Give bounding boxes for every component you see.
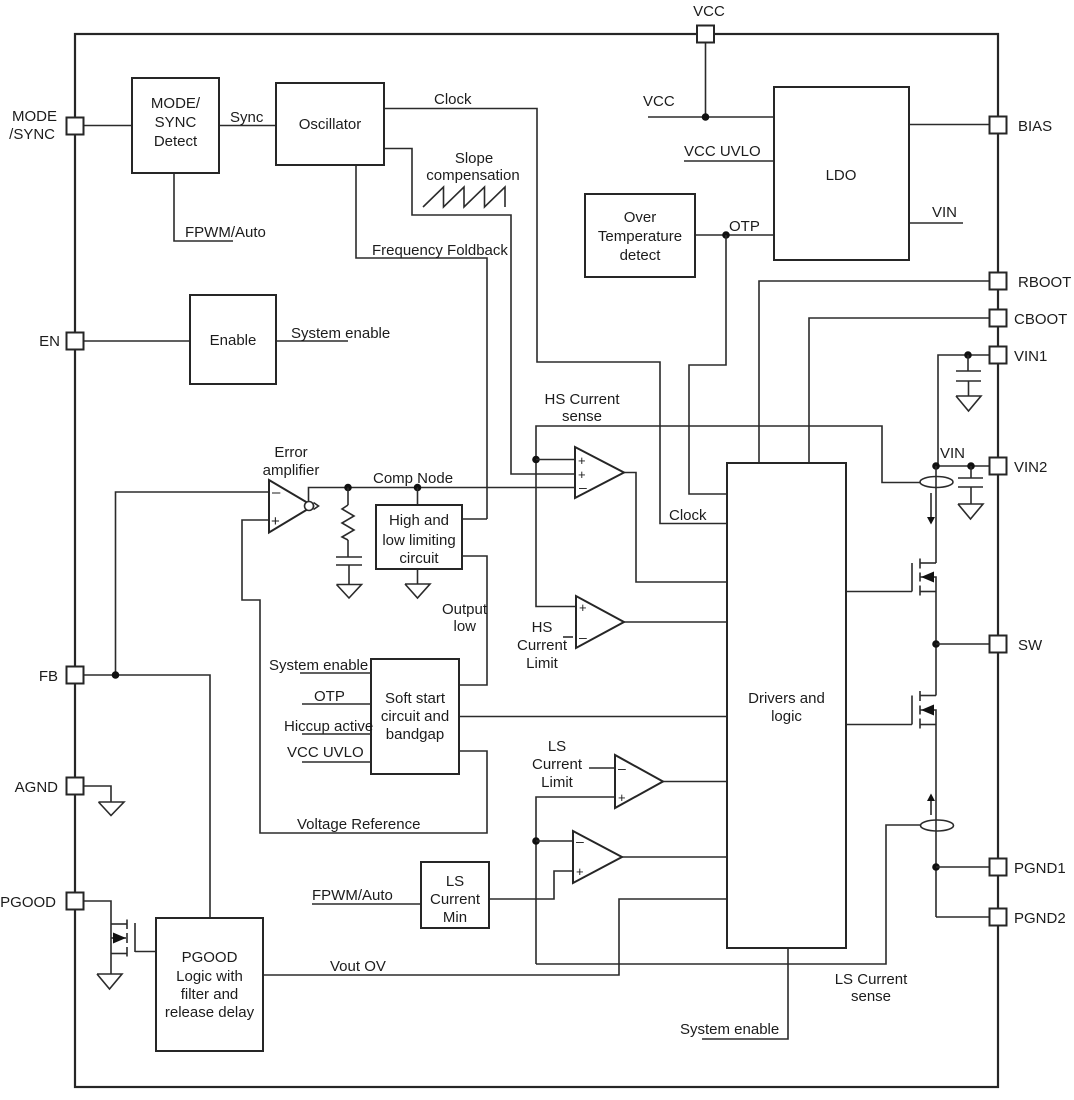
svg-text:LS Current: LS Current xyxy=(835,971,908,988)
svg-text:Error: Error xyxy=(274,444,307,461)
svg-text:+: + xyxy=(271,513,280,530)
block Drivers and logic xyxy=(727,463,846,948)
current sensor LS ellipse xyxy=(921,820,954,831)
wire System enable stub from Enable xyxy=(276,340,348,342)
wire HS FET source to SW node xyxy=(935,592,937,696)
svg-text:+: + xyxy=(578,453,586,468)
svg-text:detect: detect xyxy=(620,247,662,264)
wire LS Current Min to zero cross comparator + input xyxy=(489,871,573,899)
wire EN pin to Enable block xyxy=(84,340,190,342)
wire OTP from Over Temperature detect to LDO xyxy=(695,234,774,236)
svg-text:+: + xyxy=(576,864,584,879)
pin BIAS xyxy=(990,117,1007,134)
svg-text:+: + xyxy=(579,600,587,615)
wire OTP to Drivers and logic xyxy=(689,235,727,494)
ground PGOOD FET xyxy=(97,974,122,989)
wire LS Current Limit comparator output xyxy=(663,781,727,783)
svg-text:VIN1: VIN1 xyxy=(1014,348,1047,365)
wire HS Current Limit - input stub xyxy=(563,636,573,638)
svg-text:FPWM/Auto: FPWM/Auto xyxy=(185,224,266,241)
junction LS current sense xyxy=(532,837,540,845)
svg-text:circuit: circuit xyxy=(399,550,439,567)
pin PGOOD xyxy=(67,893,84,910)
wire zero cross comparator - input xyxy=(536,840,573,842)
svg-text:LDO: LDO xyxy=(826,167,857,184)
comparator LS Current Limit xyxy=(615,755,663,808)
wire VIN stub from LDO xyxy=(909,222,963,224)
svg-text:PGND1: PGND1 xyxy=(1014,860,1066,877)
svg-text:Detect: Detect xyxy=(154,133,198,150)
svg-text:circuit and: circuit and xyxy=(381,708,449,725)
wire Output low from High/low limiting to Soft start xyxy=(459,556,487,685)
junction VIN1 capacitor xyxy=(964,351,972,359)
wire System enable stub to Drivers and logic xyxy=(702,948,788,1039)
wire zero cross comparator output xyxy=(622,856,727,858)
svg-text:Over: Over xyxy=(624,209,657,226)
svg-text:High and: High and xyxy=(389,512,449,529)
wire FB to error amplifier - input xyxy=(116,492,270,675)
wire FPWM/Auto stub from MODE/SYNC Detect xyxy=(174,173,233,241)
svg-text:LS: LS xyxy=(446,873,464,890)
svg-text:BIAS: BIAS xyxy=(1018,118,1052,135)
junction VCC xyxy=(702,113,710,121)
svg-text:amplifier: amplifier xyxy=(263,462,320,479)
resistor compensation xyxy=(342,488,354,558)
svg-text:VCC UVLO: VCC UVLO xyxy=(287,744,364,761)
wire VIN2 pin rail xyxy=(936,465,989,467)
wire VIN1 pin rail xyxy=(938,355,989,466)
junction PGND1 xyxy=(932,863,940,871)
svg-text:VIN: VIN xyxy=(940,445,965,462)
svg-text:Soft start: Soft start xyxy=(385,690,446,707)
sawtooth slope compensation waveform xyxy=(423,187,505,207)
wire RBOOT pin to Drivers and logic xyxy=(759,281,989,463)
junction OTP xyxy=(722,231,730,239)
wire VCC stub into LDO xyxy=(648,116,774,118)
svg-text:compensation: compensation xyxy=(426,167,519,184)
pin VCC xyxy=(697,26,714,43)
pin VIN1 xyxy=(990,347,1007,364)
pin AGND xyxy=(67,778,84,795)
svg-text:PGOOD: PGOOD xyxy=(182,949,238,966)
current sensor HS ellipse xyxy=(920,477,953,488)
svg-text:–: – xyxy=(579,629,587,645)
svg-text:Comp Node: Comp Node xyxy=(373,470,453,487)
transistor LS power FET xyxy=(846,691,936,729)
pin PGND2 xyxy=(990,909,1007,926)
wire Sync detect to Oscillator xyxy=(219,125,276,127)
block LS Current Min xyxy=(421,862,489,928)
svg-text:PGOOD: PGOOD xyxy=(0,894,56,911)
wire Comp Node from error amplifier output xyxy=(309,488,576,503)
svg-text:VIN: VIN xyxy=(932,204,957,221)
wire LS Current Limit - input stub xyxy=(589,767,615,769)
block PGOOD Logic with filter and release delay xyxy=(156,918,263,1051)
capacitor compensation xyxy=(336,557,362,585)
svg-text:VIN2: VIN2 xyxy=(1014,459,1047,476)
svg-text:SW: SW xyxy=(1018,637,1043,654)
svg-text:Clock: Clock xyxy=(434,91,472,108)
wire Sync pin MODE/SYNC to detect block xyxy=(84,125,132,127)
wire FPWM/Auto stub to LS Current Min xyxy=(312,903,421,905)
wire comp node into High and low limiting circuit xyxy=(417,488,419,506)
pin MODE/SYNC xyxy=(67,118,84,135)
capacitor VIN1 bypass xyxy=(956,355,981,396)
svg-text:Enable: Enable xyxy=(210,332,257,349)
transistor HS power FET xyxy=(846,559,936,596)
svg-text:Vout OV: Vout OV xyxy=(330,958,386,975)
pin PGND1 xyxy=(990,859,1007,876)
wire SW pin xyxy=(936,643,989,645)
wire High and low limiting to ground xyxy=(417,569,419,584)
svg-text:–: – xyxy=(618,760,626,776)
svg-text:filter and: filter and xyxy=(181,986,239,1003)
svg-text:FPWM/Auto: FPWM/Auto xyxy=(312,887,393,904)
ground High and low limiting xyxy=(405,584,430,598)
block MODE/SYNC Detect xyxy=(132,78,219,173)
wire HS Current sense from sensor to PWM comparator xyxy=(536,426,920,607)
svg-text:Drivers and: Drivers and xyxy=(748,690,825,707)
svg-text:LS: LS xyxy=(548,738,566,755)
junction comp node limiting circuit xyxy=(414,484,422,492)
svg-text:Current: Current xyxy=(532,756,583,773)
svg-text:Limit: Limit xyxy=(526,655,559,672)
svg-text:EN: EN xyxy=(39,333,60,350)
svg-text:Hiccup active: Hiccup active xyxy=(284,718,373,735)
svg-text:System enable: System enable xyxy=(269,657,368,674)
wire VIN node through HS current sensor to HS FET drain xyxy=(935,466,937,563)
svg-text:System enable: System enable xyxy=(291,325,390,342)
ground compensation network xyxy=(337,585,362,599)
wire LS Current sense from sensor xyxy=(536,825,921,964)
arrow HS current direction xyxy=(927,493,935,525)
wire Voltage Reference from Soft start to error amplifier + input xyxy=(242,520,487,833)
ground VIN1 capacitor xyxy=(956,396,981,411)
svg-text:SYNC: SYNC xyxy=(155,114,197,131)
svg-text:Temperature: Temperature xyxy=(598,228,682,245)
svg-text:MODE/: MODE/ xyxy=(151,95,201,112)
block Enable xyxy=(190,295,276,384)
svg-text:RBOOT: RBOOT xyxy=(1018,274,1071,291)
wire HS Current Limit comparator output xyxy=(624,621,727,623)
wire Soft start to Drivers and logic xyxy=(459,716,727,718)
svg-text:CBOOT: CBOOT xyxy=(1014,311,1067,328)
svg-text:Slope: Slope xyxy=(455,150,493,167)
svg-text:Frequency Foldback: Frequency Foldback xyxy=(372,242,508,259)
svg-text:VCC: VCC xyxy=(643,93,675,110)
block Soft start circuit and bandgap xyxy=(371,659,459,774)
svg-text:Logic with: Logic with xyxy=(176,968,243,985)
pin RBOOT xyxy=(990,273,1007,290)
block High and low limiting circuit xyxy=(376,505,462,569)
transistor PGOOD pulldown FET xyxy=(111,920,156,957)
pin FB xyxy=(67,667,84,684)
svg-text:OTP: OTP xyxy=(314,688,345,705)
pin SW xyxy=(990,636,1007,653)
junction SW xyxy=(932,640,940,648)
wire CBOOT pin to Drivers and logic xyxy=(809,318,989,463)
wire PWM comparator output to Drivers and logic xyxy=(624,473,727,583)
svg-text:MODE: MODE xyxy=(12,108,57,125)
svg-text:System enable: System enable xyxy=(680,1021,779,1038)
junction FB xyxy=(112,671,120,679)
svg-text:OTP: OTP xyxy=(729,218,760,235)
svg-text:HS: HS xyxy=(532,619,553,636)
ground VIN2 capacitor xyxy=(958,504,983,519)
wire Clock from Oscillator to Drivers and logic xyxy=(384,109,727,524)
block LDO xyxy=(774,87,909,260)
wire LS FET source through LS current sensor to PGND xyxy=(935,725,937,918)
wire HS sense to PWM comparator + input xyxy=(536,459,575,461)
svg-text:–: – xyxy=(576,833,584,849)
svg-text:low limiting: low limiting xyxy=(382,532,455,549)
svg-text:/SYNC: /SYNC xyxy=(9,126,55,143)
comparator LS zero cross xyxy=(573,831,622,883)
svg-text:sense: sense xyxy=(851,988,891,1005)
junction comp node resistor xyxy=(344,484,352,492)
op-amp error amplifier xyxy=(269,480,319,533)
svg-text:Clock: Clock xyxy=(669,507,707,524)
svg-text:release delay: release delay xyxy=(165,1004,255,1021)
wire Frequency Foldback from Oscillator xyxy=(356,165,487,519)
wire Vout OV from PGOOD logic to Drivers and logic xyxy=(263,899,727,975)
svg-text:AGND: AGND xyxy=(15,779,59,796)
comparator HS Current Limit xyxy=(576,596,624,648)
svg-text:PGND2: PGND2 xyxy=(1014,910,1066,927)
svg-text:Output: Output xyxy=(442,601,488,618)
wire Slope compensation from Oscillator to PWM comparator xyxy=(384,149,575,475)
junction VIN2 capacitor xyxy=(967,462,975,470)
wire PGND2 pin xyxy=(936,916,989,918)
svg-text:Sync: Sync xyxy=(230,109,264,126)
svg-text:HS Current: HS Current xyxy=(544,391,620,408)
pin CBOOT xyxy=(990,310,1007,327)
wire VCC UVLO stub into LDO xyxy=(684,160,774,162)
wire LS Current Limit + input from LS current sense xyxy=(536,797,615,964)
pin VIN2 xyxy=(990,458,1007,475)
svg-text:Limit: Limit xyxy=(541,774,574,791)
block Oscillator xyxy=(276,83,384,165)
svg-text:–: – xyxy=(272,484,281,501)
wire FB pin to PGOOD logic xyxy=(84,675,210,918)
junction HS current sense xyxy=(532,456,540,464)
wire High/low limiting top stub xyxy=(462,518,487,520)
capacitor VIN2 bypass xyxy=(958,466,983,504)
svg-text:–: – xyxy=(579,479,587,495)
svg-text:Voltage Reference: Voltage Reference xyxy=(297,816,420,833)
svg-text:logic: logic xyxy=(771,708,802,725)
svg-text:Current: Current xyxy=(430,891,481,908)
svg-text:Min: Min xyxy=(443,909,467,926)
wire PGOOD pin to transistor drain xyxy=(84,901,111,924)
svg-text:+: + xyxy=(618,790,626,805)
comparator PWM three-input xyxy=(575,447,624,498)
wire BIAS pin from LDO xyxy=(909,124,989,126)
svg-text:Oscillator: Oscillator xyxy=(299,116,362,133)
svg-text:sense: sense xyxy=(562,408,602,425)
svg-text:VCC: VCC xyxy=(693,3,725,20)
svg-text:bandgap: bandgap xyxy=(386,726,444,743)
ground AGND xyxy=(99,802,125,816)
wire VCC pin to VCC rail xyxy=(705,43,707,117)
wire PGND1 pin xyxy=(936,866,989,868)
wire AGND pin to ground xyxy=(84,786,111,802)
svg-text:low: low xyxy=(453,618,476,635)
svg-text:VCC UVLO: VCC UVLO xyxy=(684,143,761,160)
pin EN xyxy=(67,333,84,350)
block Over Temperature detect xyxy=(585,194,695,277)
junction VIN2 left xyxy=(932,462,940,470)
arrow LS current direction xyxy=(927,794,935,816)
svg-text:Current: Current xyxy=(517,637,568,654)
svg-text:FB: FB xyxy=(39,668,58,685)
wire PGOOD FET source to ground xyxy=(110,954,112,975)
